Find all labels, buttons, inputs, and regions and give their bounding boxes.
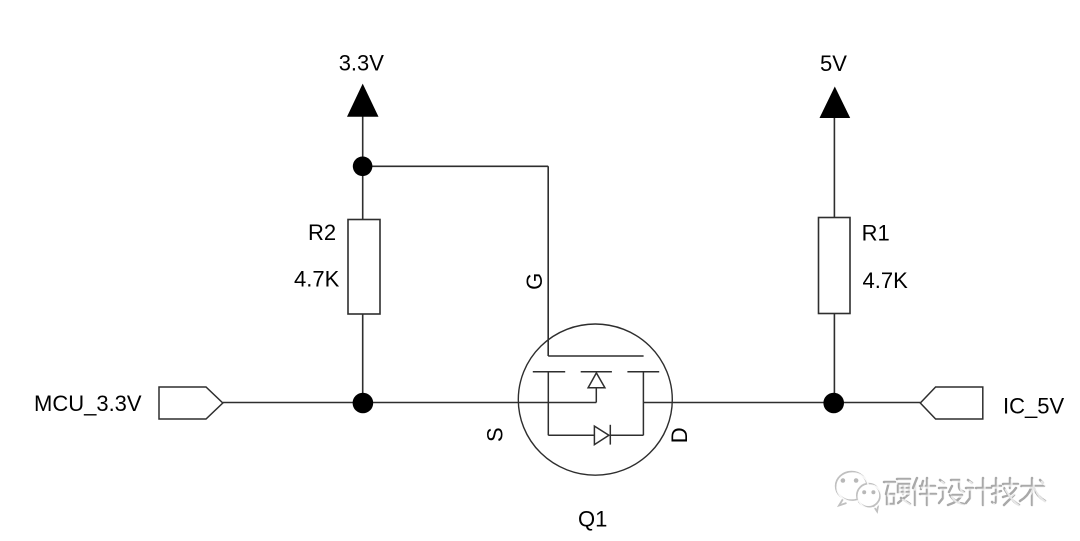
svg-text:IC_5V: IC_5V (1003, 393, 1064, 418)
Q1 source tap (547, 372, 549, 436)
wire: drain rail Q1 to IC connector (643, 402, 920, 404)
Q1 body diode cathode bar (609, 425, 611, 445)
Q1 body arrow head (588, 373, 605, 388)
port MCU_3.3V connector symbol (159, 387, 223, 419)
junction dot: source rail / R2 node (353, 393, 374, 414)
Q1 channel segment 2 (581, 371, 612, 373)
wire: gate net horizontal from 3.3V junction (363, 165, 549, 167)
Q1 gate plate (548, 355, 643, 357)
wire: junction to resistor R2 top (362, 166, 364, 220)
svg-text:3.3V: 3.3V (339, 51, 385, 76)
Q1 channel segment 3 (627, 371, 659, 373)
Q1 body diode anode wire (548, 434, 594, 436)
junction dot: 3.3V node (353, 157, 373, 177)
svg-text:4.7K: 4.7K (863, 268, 909, 293)
resistor R2 body (348, 220, 380, 315)
junction dot: drain rail / R1 node (823, 393, 844, 414)
svg-text:4.7K: 4.7K (294, 267, 340, 292)
svg-text:G: G (522, 273, 547, 290)
Q1 body circle (518, 324, 672, 475)
svg-text:5V: 5V (820, 51, 847, 76)
watermark group (836, 472, 1047, 512)
svg-text:MCU_3.3V: MCU_3.3V (34, 391, 142, 416)
wire: resistor R1 bottom to drain rail (833, 314, 835, 403)
svg-text:D: D (667, 427, 692, 443)
svg-text:R1: R1 (862, 221, 890, 246)
wire: resistor R2 bottom to source rail (362, 314, 364, 403)
Q1 drain tap (642, 372, 644, 436)
svg-text:S: S (482, 427, 507, 442)
resistor R1 body (819, 218, 851, 314)
transistor Q1 MOSFET (518, 324, 672, 475)
svg-text:R2: R2 (308, 220, 336, 245)
wire: source rail MCU connector to Q1 body arrow (223, 402, 597, 404)
port IC_5V connector symbol (920, 387, 983, 419)
Q1 body diode cathode wire (610, 434, 643, 436)
Q1 channel segment 1 (533, 371, 565, 373)
svg-text:Q1: Q1 (578, 507, 607, 532)
power symbol 5V arrow (820, 87, 851, 119)
wire: 5V arrow stem to resistor R1 top (833, 117, 835, 218)
wire: gate net vertical down to Q1 gate (547, 166, 549, 356)
power symbol 3.3V arrow (347, 84, 379, 117)
wire: 3.3V arrow stem to junction (362, 116, 364, 166)
Q1 body arrow stem (595, 388, 597, 403)
Q1 body diode triangle (594, 426, 609, 445)
watermark wechat logo (836, 472, 882, 512)
